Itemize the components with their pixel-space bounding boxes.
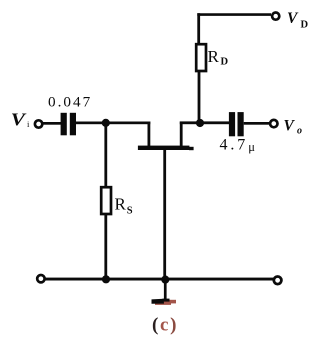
terminal Vo: [270, 120, 277, 127]
resistor RS: [101, 187, 111, 214]
wire RS bottom to rail: [104, 214, 107, 280]
node source rail junction: [161, 276, 169, 284]
wire capacitor to gate node: [76, 122, 107, 125]
node RS rail junction: [102, 275, 110, 283]
capacitor C1 0.047: [61, 113, 76, 136]
terminal Vi: [35, 120, 42, 127]
wire source down to bottom rail: [163, 150, 166, 281]
wire capacitor to Vo terminal: [244, 122, 270, 125]
ground: [152, 299, 177, 305]
svg-text:4.7μ: 4.7μ: [220, 137, 258, 155]
svg-text:(c): (c): [152, 315, 178, 336]
terminal bottom left: [37, 275, 44, 282]
svg-text:V: V: [11, 111, 27, 130]
wire gate node to transistor gate: [106, 122, 151, 125]
capacitor C2 4.7u: [229, 112, 244, 136]
node drain junction: [196, 119, 204, 127]
svg-text:R: R: [208, 47, 220, 66]
wire bottom rail: [44, 278, 274, 281]
wire Vi to input capacitor: [43, 122, 62, 125]
wire top rail to VD terminal: [197, 13, 271, 16]
node gate junction: [102, 119, 110, 127]
svg-text:0.047: 0.047: [48, 94, 92, 111]
wire VD corner down to RD: [197, 13, 200, 44]
svg-text:V: V: [284, 118, 296, 135]
resistor RD: [196, 44, 206, 71]
svg-text:D: D: [221, 57, 229, 68]
svg-text:D: D: [301, 20, 309, 31]
svg-text:i: i: [27, 119, 30, 129]
terminal VD: [272, 13, 279, 20]
wire gate node down to RS: [104, 123, 107, 187]
svg-text:R: R: [115, 195, 127, 214]
wire ground stub: [164, 280, 167, 301]
transistor Q1 (FET): [138, 122, 194, 151]
terminal bottom right: [274, 277, 282, 285]
svg-text:o: o: [297, 126, 302, 137]
svg-text:V: V: [287, 10, 299, 27]
svg-text:S: S: [127, 206, 133, 217]
wire drain horizontal to output capacitor: [180, 121, 230, 124]
wire RD bottom to drain node: [198, 72, 201, 122]
